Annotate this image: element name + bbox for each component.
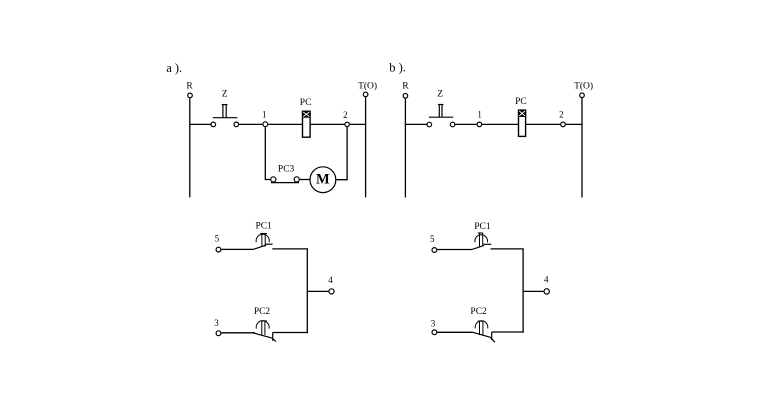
terminal 5 (bottom-right) [430, 234, 437, 253]
node 4 (bottom-right) [523, 274, 549, 294]
timed contact PC2 (bottom-left) [253, 307, 276, 342]
wire: rail to Z (diagram b) [405, 123, 427, 125]
wire: motor to node 2 riser (diagram a) [336, 127, 347, 180]
terminal 3 (bottom-right) [431, 318, 437, 334]
wire: right riser (bottom-left) [306, 249, 308, 333]
timed contact PC1 (bottom-left) [254, 221, 273, 249]
svg-text:R: R [186, 82, 193, 92]
node 1 (diagram a) [262, 110, 268, 127]
terminal T(O) (diagram b) [574, 81, 593, 98]
svg-text:1: 1 [477, 110, 482, 120]
wire: PC1 to corner (bottom-right) [491, 248, 524, 250]
terminal R (diagram a) [186, 82, 193, 98]
svg-text:PC1: PC1 [256, 221, 273, 231]
wire: rail to Z (diagram a) [189, 123, 210, 125]
wire: PC1 to corner (bottom-left) [272, 248, 308, 250]
wire: right rail (diagram b) [581, 98, 583, 198]
relay coil PC (diagram a) [300, 98, 312, 137]
svg-text:Z: Z [222, 90, 228, 100]
svg-text:1: 1 [262, 110, 267, 120]
svg-text:2: 2 [343, 110, 348, 120]
wire: PC2 to corner (bottom-right) [492, 331, 524, 333]
svg-text:b ).: b ). [389, 60, 406, 74]
wire: terminal 3 to PC2 (bottom-right) [437, 331, 473, 333]
terminal T(O) (diagram a) [358, 81, 377, 97]
svg-text:PC: PC [515, 97, 527, 107]
svg-text:PC2: PC2 [470, 307, 487, 317]
wire: coil PC to node 2 (diagram b) [526, 123, 561, 125]
wire: terminal 5 to PC1 (bottom-left) [221, 248, 253, 250]
wire: terminal 3 to PC2 (bottom-left) [221, 332, 255, 334]
timed contact PC2 (bottom-right) [470, 307, 494, 342]
wire: node 1 to coil PC (diagram a) [268, 123, 302, 125]
pushbutton Z (diagram b) [427, 90, 455, 127]
svg-text:Z: Z [437, 90, 443, 100]
terminal 5 (bottom-left) [215, 234, 221, 252]
wire: terminal 5 to PC1 (bottom-right) [437, 249, 472, 251]
svg-text:M: M [316, 172, 330, 188]
svg-text:T(O): T(O) [358, 81, 377, 92]
svg-text:PC: PC [300, 98, 312, 108]
wire: node 2 to right rail (diagram b) [566, 123, 583, 125]
svg-text:3: 3 [431, 318, 436, 328]
wire: PC3 to motor (diagram a) [300, 179, 310, 181]
svg-text:3: 3 [214, 318, 219, 328]
svg-text:2: 2 [559, 110, 564, 120]
node 4 (bottom-left) [307, 275, 334, 294]
contact PC3 (diagram a) [271, 165, 300, 183]
svg-text:PC2: PC2 [254, 307, 271, 317]
svg-text:4: 4 [544, 274, 549, 284]
svg-text:5: 5 [215, 234, 220, 244]
wire: PC2 to corner (bottom-left) [273, 332, 308, 334]
svg-text:a ).: a ). [166, 61, 182, 75]
terminal R (diagram b) [402, 82, 409, 99]
wire: Z to node 1 (diagram b) [455, 123, 476, 125]
node 1 (diagram b) [477, 110, 482, 127]
label a). [166, 61, 182, 75]
wire: node 2 to right rail (diagram a) [350, 123, 367, 125]
svg-text:PC3: PC3 [278, 165, 295, 175]
wire: branch riser from node 1 (diagram a) [265, 127, 270, 179]
wire: Z to node 1 (diagram a) [239, 123, 262, 125]
terminal 3 (bottom-left) [214, 318, 221, 335]
node 2 (diagram b) [559, 110, 565, 127]
label b). [389, 60, 406, 74]
svg-text:T(O): T(O) [574, 81, 593, 92]
wire: left rail (diagram a) [189, 98, 191, 197]
svg-text:4: 4 [328, 275, 333, 285]
timed contact PC1 (bottom-right) [472, 222, 491, 249]
svg-text:5: 5 [430, 234, 435, 244]
motor M (diagram a) [310, 167, 336, 193]
wire: right riser (bottom-right) [522, 249, 524, 333]
wire: left rail (diagram b) [404, 98, 406, 197]
pushbutton Z (diagram a) [211, 90, 239, 127]
wire: coil PC to node 2 (diagram a) [310, 123, 344, 125]
svg-text:R: R [402, 82, 409, 92]
relay coil PC (diagram b) [515, 97, 527, 136]
svg-text:PC1: PC1 [474, 222, 491, 232]
node 2 (diagram a) [343, 110, 349, 127]
wire: right rail (diagram a) [365, 97, 367, 197]
wire: node 1 to coil PC (diagram b) [482, 123, 518, 125]
